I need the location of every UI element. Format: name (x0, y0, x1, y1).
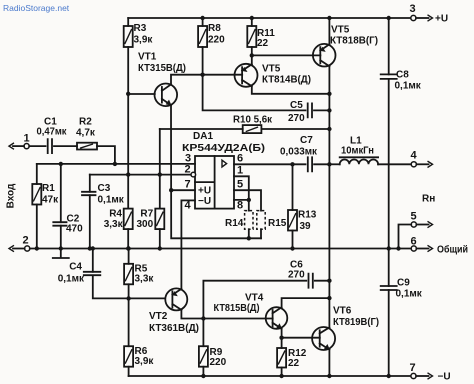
resistor R12 (277, 338, 307, 378)
svg-text:270: 270 (288, 113, 305, 124)
terminal 2 (9, 235, 30, 252)
svg-text:VT1: VT1 (138, 52, 157, 63)
svg-text:4,7к: 4,7к (76, 128, 96, 139)
wire +U top rail (128, 17, 411, 19)
terminal 7 -U (410, 362, 451, 383)
node VT5 emitter at +U (327, 16, 331, 20)
resistor R5 (124, 246, 154, 298)
svg-text:R4: R4 (109, 209, 122, 220)
terminal 1 input (9, 133, 46, 150)
transistor VT4 (214, 293, 288, 330)
svg-text:2: 2 (185, 164, 191, 176)
svg-text:R15: R15 (268, 218, 287, 229)
resistor R14 optional (225, 200, 253, 238)
pin 7 (171, 179, 195, 191)
pin 2 (185, 164, 196, 177)
wire VT1 base (128, 93, 155, 95)
node VT4 collector at bus (327, 296, 331, 300)
svg-text:39: 39 (300, 221, 312, 232)
svg-text:C8: C8 (396, 70, 409, 81)
transistor VT1 (138, 52, 186, 107)
svg-text:КТ315В(Д): КТ315В(Д) (138, 63, 186, 74)
ground mark below rail (53, 249, 69, 259)
wire output bus (328, 94, 330, 328)
transistor VT6 (312, 306, 379, 351)
svg-text:R2: R2 (79, 117, 92, 128)
svg-text:0,47мк: 0,47мк (37, 127, 68, 138)
capacitor C4 (58, 246, 165, 298)
svg-text:Общий: Общий (437, 244, 468, 256)
resistor R4 (104, 172, 133, 250)
node VT2 base (126, 296, 130, 300)
wire VT6 emitter to -U (328, 349, 330, 376)
wire VT4 collector to bus (282, 298, 330, 307)
svg-text:R7: R7 (140, 209, 153, 220)
resistor R13 (288, 164, 317, 250)
svg-text:0,1мк: 0,1мк (396, 289, 423, 300)
svg-text:47к: 47к (42, 195, 59, 206)
node R10 at output bus (327, 127, 331, 131)
svg-text:0,1мк: 0,1мк (395, 81, 422, 92)
terminal 4 output (411, 150, 433, 168)
op-amp DA1 (182, 131, 265, 209)
svg-text:+U: +U (198, 186, 211, 197)
svg-text:300: 300 (137, 219, 154, 230)
wire VT6 base (282, 337, 320, 339)
svg-text:VT5: VT5 (262, 64, 281, 75)
node pin7 / VT1 emitter (169, 188, 173, 192)
node VT1 base (126, 92, 130, 96)
wire common rail (30, 248, 411, 250)
resistor R1 (32, 164, 59, 249)
wire VT1 collector (171, 75, 242, 85)
svg-text:C7: C7 (300, 135, 313, 146)
capacitor C7 (280, 135, 329, 171)
resistor R10 feedback (160, 115, 330, 134)
capacitor C2 (53, 162, 83, 251)
svg-text:4: 4 (411, 150, 418, 162)
svg-text:КТ814В(Д): КТ814В(Д) (262, 75, 311, 86)
node R2 to pin3 net (113, 162, 117, 166)
node R11 bottom / VT5 bases (250, 53, 254, 57)
svg-text:1: 1 (237, 165, 243, 177)
node R9 / C6 tap (201, 316, 205, 320)
svg-text:4: 4 (185, 200, 192, 212)
capacitor C3 (82, 175, 125, 251)
svg-text:КТ815В(Д): КТ815В(Д) (214, 303, 260, 314)
svg-text:КР544УД2А(Б): КР544УД2А(Б) (182, 143, 265, 154)
svg-text:7: 7 (410, 362, 416, 374)
svg-text:VT4: VT4 (245, 293, 264, 304)
svg-text:1: 1 (24, 133, 30, 145)
svg-text:RadioStorage.net: RadioStorage.net (3, 3, 70, 13)
svg-text:22: 22 (257, 38, 269, 49)
capacitor C5 (288, 100, 329, 124)
svg-text:7: 7 (185, 179, 191, 191)
transistor VT2 (149, 288, 199, 334)
svg-text:C3: C3 (98, 183, 111, 194)
svg-text:270: 270 (288, 270, 305, 281)
node VT6 emitter at -U rail (327, 374, 331, 378)
node output bus / filter (327, 162, 331, 166)
svg-text:КТ361В(Д): КТ361В(Д) (149, 323, 199, 334)
svg-text:R10 5,6к: R10 5,6к (233, 115, 273, 126)
svg-text:10мкГн: 10мкГн (341, 146, 374, 157)
svg-text:VT6: VT6 (333, 306, 352, 317)
resistor R9 (199, 319, 227, 379)
svg-text:Rн: Rн (422, 194, 435, 205)
wire inverting net (90, 174, 191, 176)
svg-text:−U: −U (438, 372, 451, 383)
svg-text:DA1: DA1 (193, 131, 213, 142)
svg-text:0,1мк: 0,1мк (98, 194, 125, 205)
resistor R3 (124, 18, 154, 94)
node VT4 emitter / VT6 base (279, 336, 283, 340)
resistor R11 (247, 18, 275, 55)
capacitor C9 (381, 246, 423, 378)
wire VT2 collector row (181, 310, 272, 319)
wire VT5 base link (252, 54, 321, 56)
svg-text:22: 22 (288, 358, 300, 369)
terminal 5 (396, 211, 432, 251)
resistor R7 with feedback drop (137, 129, 165, 251)
svg-text:R8: R8 (208, 23, 221, 34)
node R14 bottom (247, 236, 251, 240)
svg-text:VT2: VT2 (149, 311, 168, 322)
svg-text:5: 5 (237, 179, 243, 191)
terminal 3 +U (410, 3, 449, 25)
svg-text:3,9к: 3,9к (134, 35, 154, 46)
svg-text:3,3к: 3,3к (135, 274, 155, 285)
svg-text:Вход: Вход (6, 183, 17, 208)
transistor VT5 KT814 (235, 55, 330, 93)
resistor R6 (124, 298, 154, 376)
pin 8 (234, 200, 249, 212)
resistor R8 (198, 18, 225, 75)
transistor VT5 KT818 (313, 18, 378, 94)
wire non-inverting net (37, 163, 195, 165)
wire C5 tap (203, 75, 306, 111)
svg-text:3,3к: 3,3к (104, 219, 124, 230)
svg-text:C4: C4 (69, 262, 82, 273)
pin 6 output (234, 153, 306, 165)
pin 1 (234, 165, 249, 200)
node R8 bottom (200, 73, 204, 77)
svg-text:R13: R13 (298, 210, 317, 221)
capacitor C8 (381, 18, 422, 249)
wire pin4 to VT2 emitter (180, 200, 182, 289)
svg-text:0,1мк: 0,1мк (58, 274, 85, 285)
node pins 1-8 (247, 198, 251, 202)
wire VT1 emitter down to R14 R15 (171, 105, 261, 238)
pin 5 (234, 179, 261, 211)
svg-text:220: 220 (208, 35, 225, 46)
svg-text:−U: −U (198, 196, 211, 207)
svg-text:220: 220 (210, 357, 227, 368)
node R8 top (200, 16, 204, 20)
resistor R15 optional (257, 211, 287, 239)
wire VT1 base to inverting net (127, 94, 129, 175)
capacitor C6 bootstrap (203, 260, 331, 319)
wire -U bottom rail (129, 375, 411, 377)
svg-text:2: 2 (23, 235, 29, 247)
svg-text:3,9к: 3,9к (135, 356, 155, 367)
svg-text:6: 6 (237, 153, 243, 165)
terminal 6 common (411, 236, 469, 256)
svg-text:VT5: VT5 (331, 25, 350, 36)
svg-text:+U: +U (435, 14, 448, 25)
svg-text:8: 8 (237, 200, 243, 212)
svg-text:C5: C5 (290, 100, 303, 111)
svg-text:R1: R1 (42, 183, 55, 194)
node VT5/VT5 collectors join (327, 92, 331, 96)
node R1 at rail (35, 246, 39, 250)
node pin6 / R13 top (290, 162, 294, 166)
svg-text:470: 470 (66, 224, 83, 235)
node C5 at output bus (327, 108, 331, 112)
svg-text:R14: R14 (225, 218, 244, 229)
resistor R2 (76, 117, 115, 164)
inductor L1 (329, 136, 411, 165)
pin 4 (181, 200, 195, 212)
svg-text:КТ819В(Г): КТ819В(Г) (333, 317, 379, 328)
capacitor C1 (37, 117, 78, 154)
svg-text:5: 5 (411, 211, 417, 223)
svg-text:R3: R3 (134, 23, 147, 34)
svg-text:C9: C9 (397, 278, 410, 289)
node R11 top (250, 16, 254, 20)
svg-text:3: 3 (410, 3, 416, 15)
node C8 top (387, 16, 391, 20)
svg-text:0,033мк: 0,033мк (280, 147, 318, 158)
wire VT4 emitter / VT6 base (281, 329, 283, 338)
svg-text:КТ818В(Г): КТ818В(Г) (330, 36, 378, 47)
